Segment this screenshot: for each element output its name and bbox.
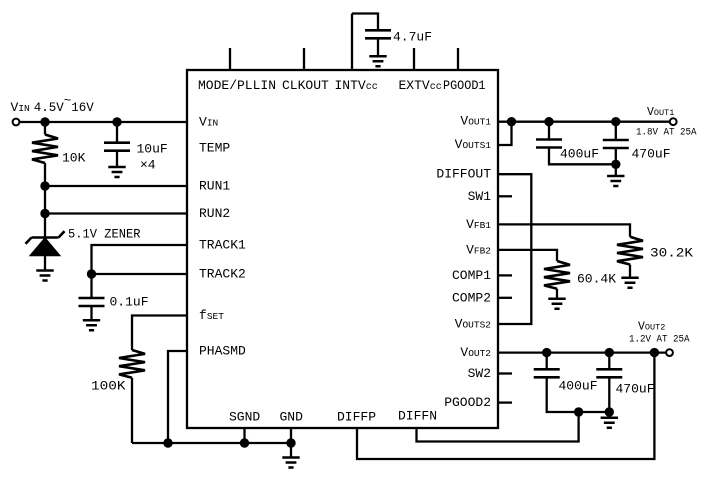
svg-text:VOUT2: VOUT2: [460, 345, 491, 360]
junction C7 ground: [605, 407, 614, 416]
capacitor C5 470uF: [603, 122, 629, 176]
pin CLKOUT stub: [303, 48, 305, 70]
svg-text:400uF: 400uF: [559, 379, 598, 394]
svg-text:PGOOD1: PGOOD1: [443, 78, 486, 93]
junction DIFFN/C6 rail: [574, 407, 583, 416]
svg-text:VFB1: VFB1: [466, 217, 491, 232]
ground (D1): [36, 271, 53, 281]
junction SGND/rail: [240, 438, 249, 447]
wire RUN2: [45, 212, 187, 214]
capacitor C3 0.1uF: [79, 274, 105, 320]
svg-text:VOUT1: VOUT1: [460, 114, 491, 129]
svg-text:470uF: 470uF: [632, 147, 671, 162]
capacitor C1 4.7uF: [365, 30, 391, 55]
junction C4/C5 ground: [611, 160, 620, 169]
pin EXTVcc stub: [413, 48, 415, 70]
wire PHASMD: [168, 351, 187, 443]
junction VIN/C2: [112, 117, 121, 126]
junction VIN/R1: [40, 117, 49, 126]
svg-text:60.4K: 60.4K: [577, 272, 616, 287]
svg-text:TEMP: TEMP: [199, 141, 230, 156]
ground (C5): [607, 176, 624, 186]
junction VOUT2/C6: [542, 348, 551, 357]
pin COMP2 stub: [498, 297, 512, 299]
wire VIN rail: [20, 121, 188, 123]
ground (C3): [83, 320, 100, 330]
resistor R3 30.2K: [617, 237, 643, 277]
svg-text:VOUT1: VOUT1: [647, 106, 674, 119]
junction VOUT1/C5: [611, 117, 620, 126]
capacitor C7 470uF: [596, 353, 622, 418]
wire DIFFOUT to VOUTS2: [498, 174, 531, 324]
svg-text:TRACK1: TRACK1: [199, 238, 246, 253]
wire fSET: [132, 316, 187, 351]
wire VOUT2 rail: [498, 351, 666, 353]
junction GND/rail: [286, 438, 295, 447]
svg-text:×4: ×4: [140, 158, 156, 173]
svg-text:0.1uF: 0.1uF: [110, 295, 149, 310]
wire RUN1: [45, 185, 187, 187]
svg-text:10uF: 10uF: [137, 142, 168, 157]
ground (C2): [108, 167, 125, 177]
svg-text:VIN: VIN: [199, 115, 218, 130]
wire VFB2: [498, 250, 557, 261]
svg-text:VOUT2: VOUT2: [638, 321, 665, 334]
svg-text:MODE/PLLIN: MODE/PLLIN: [198, 78, 276, 93]
resistor R2 100K: [119, 350, 145, 443]
wire TRACK1: [92, 245, 188, 274]
svg-text:VFB2: VFB2: [466, 242, 491, 257]
terminal VOUT2: [666, 349, 673, 356]
pin COMP1 stub: [498, 274, 512, 276]
junction PHASMD/rail: [163, 438, 172, 447]
terminal VOUT1: [670, 118, 677, 125]
junction VOUT2/C7: [605, 348, 614, 357]
svg-text:DIFFP: DIFFP: [337, 410, 376, 425]
ground (GND pin): [282, 458, 299, 468]
svg-text:CLKOUT: CLKOUT: [282, 78, 329, 93]
ground (R4): [548, 299, 565, 309]
wire DIFFP to VOUT2 sense: [357, 353, 654, 459]
svg-text:470uF: 470uF: [616, 382, 655, 397]
svg-text:TRACK2: TRACK2: [199, 267, 246, 282]
pin PGOOD2 stub: [498, 401, 512, 403]
pin PGOOD1 stub: [457, 48, 459, 70]
capacitor C4 400uF: [536, 122, 616, 165]
svg-text:COMP1: COMP1: [452, 268, 491, 283]
wire INTVcc to C1: [352, 14, 378, 31]
pin SW1 stub: [498, 195, 512, 197]
capacitor C6 400uF: [534, 353, 610, 412]
zener diode D1 5.1V: [26, 231, 65, 270]
svg-text:PGOOD2: PGOOD2: [444, 395, 491, 410]
svg-text:INTVcc: INTVcc: [335, 78, 378, 93]
junction VOUTS1/VOUT1: [507, 117, 516, 126]
svg-text:5.1V ZENER: 5.1V ZENER: [68, 227, 141, 242]
resistor R1 10K: [32, 122, 58, 237]
svg-text:SGND: SGND: [229, 410, 260, 425]
svg-text:100K: 100K: [91, 379, 126, 394]
svg-text:SW1: SW1: [468, 189, 492, 204]
wire VFB1: [498, 224, 630, 236]
junction RUN2: [40, 209, 49, 218]
ground (R3): [621, 278, 638, 288]
pin MODE/PLLIN stub: [229, 48, 231, 70]
wire DIFFN to GND sense: [417, 412, 579, 442]
svg-text:4.7uF: 4.7uF: [393, 30, 432, 45]
svg-text:RUN2: RUN2: [199, 206, 230, 221]
ground (C1): [369, 56, 386, 66]
wire VOUTS1: [498, 122, 512, 145]
junction VOUT1/C4: [544, 117, 553, 126]
wire ground rail: [132, 442, 291, 444]
svg-text:SW2: SW2: [468, 366, 491, 381]
svg-text:DIFFN: DIFFN: [398, 409, 437, 424]
wire TRACK2: [92, 273, 188, 275]
pin GND stub: [290, 428, 292, 457]
svg-text:DIFFOUT: DIFFOUT: [436, 167, 491, 182]
junction RUN1: [40, 181, 49, 190]
svg-text:1.8V AT 25A: 1.8V AT 25A: [636, 127, 697, 138]
svg-text:PHASMD: PHASMD: [199, 344, 246, 359]
capacitor C2 10uF x4: [104, 122, 130, 167]
svg-text:GND: GND: [280, 410, 304, 425]
svg-text:30.2K: 30.2K: [650, 246, 693, 261]
svg-text:400uF: 400uF: [560, 147, 599, 162]
svg-text:VOUTS1: VOUTS1: [455, 137, 492, 152]
pin SGND stub: [243, 428, 245, 443]
pin SW2 stub: [498, 372, 512, 374]
terminal VIN input: [13, 119, 20, 126]
svg-text:VIN4.5V~16V: VIN4.5V~16V: [11, 94, 95, 115]
resistor R4 60.4K: [544, 261, 570, 298]
pin INTVcc stub: [351, 14, 353, 71]
svg-text:10K: 10K: [62, 151, 86, 166]
svg-text:VOUTS2: VOUTS2: [455, 317, 492, 332]
junction TRACK2/C3: [87, 269, 96, 278]
svg-text:COMP2: COMP2: [452, 290, 491, 305]
ground (C7): [601, 418, 618, 428]
op-amp U1 IC body: [187, 70, 498, 428]
junction VOUT2/DIFFP: [650, 348, 659, 357]
svg-text:RUN1: RUN1: [199, 179, 230, 194]
svg-text:1.2V AT 25A: 1.2V AT 25A: [629, 334, 690, 345]
svg-text:EXTVcc: EXTVcc: [399, 78, 442, 93]
wire VOUT1 rail: [498, 121, 670, 123]
svg-text:fSET: fSET: [199, 308, 224, 323]
